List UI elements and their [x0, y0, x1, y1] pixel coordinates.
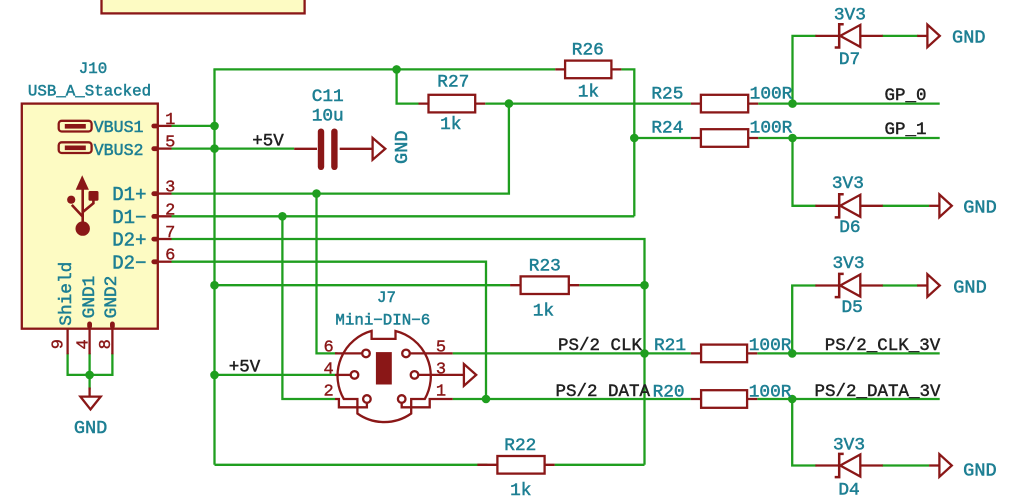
zener diode D5: [815, 274, 882, 297]
J10 pin 4 (GND1): [88, 323, 90, 355]
svg-text:D2+: D2+: [112, 230, 146, 252]
svg-text:USB_A_Stacked: USB_A_Stacked: [28, 82, 151, 100]
junction R23 rail/bus: [210, 281, 219, 290]
svg-text:1k: 1k: [578, 83, 599, 103]
svg-text:Shield: Shield: [57, 262, 77, 326]
svg-text:100R: 100R: [749, 336, 792, 356]
wire R24 left junction: [634, 137, 691, 139]
svg-text:9: 9: [50, 339, 69, 349]
svg-text:R22: R22: [504, 436, 536, 456]
svg-text:J10: J10: [79, 60, 107, 78]
wire CLK line to PS/2_CLK_3V: [757, 352, 939, 354]
junction CLK line/riser: [640, 349, 649, 358]
svg-text:3V3: 3V3: [834, 6, 866, 26]
wire R26/R27 split vertical: [397, 69, 419, 103]
svg-text:C11: C11: [312, 87, 344, 107]
J10 pin 9 (Shield): [66, 329, 68, 355]
svg-text:GND: GND: [74, 418, 107, 439]
junction J10 ground pins: [85, 371, 94, 380]
J7 pin 5: [411, 352, 453, 354]
svg-text:GND: GND: [963, 197, 996, 218]
junction DATA/D4 drop: [788, 395, 797, 404]
J10 pin 8 (GND2): [111, 323, 113, 355]
svg-text:1: 1: [165, 111, 175, 130]
ground symbol below J10: [88, 388, 90, 397]
J10 pin 2 (D1-): [158, 215, 172, 217]
svg-text:3V3: 3V3: [832, 174, 864, 194]
resistor R21: [691, 352, 757, 354]
svg-text:4: 4: [75, 339, 94, 349]
junction GP_0/D7 riser: [788, 99, 797, 108]
J10 pin 5 (VBUS2): [158, 147, 172, 149]
wire VBUS2 pin to C11: [172, 147, 295, 149]
svg-text:8: 8: [97, 339, 116, 349]
junction VBUS1/bus: [210, 122, 219, 131]
svg-text:J7: J7: [377, 289, 396, 307]
svg-text:R20: R20: [653, 383, 685, 403]
svg-text:2: 2: [165, 201, 175, 220]
J10 pin 2 nub: [151, 214, 158, 219]
junction R26/R24: [630, 134, 639, 143]
wire R22 right to CLK riser: [555, 464, 645, 466]
J10 pin 6 nub: [151, 259, 158, 264]
wire D4 to GND label: [882, 464, 929, 466]
wire R23 rail from bus: [215, 284, 511, 286]
J7 pin 2 channel: [335, 399, 367, 407]
svg-text:R26: R26: [572, 41, 604, 61]
J10 pin 3 nub: [151, 191, 158, 196]
wire D6 to GND label: [882, 205, 929, 207]
J10 pin 6 (D2-): [158, 261, 172, 263]
junction CLK/D5 riser: [788, 349, 797, 358]
svg-text:R23: R23: [529, 257, 561, 277]
svg-text:1k: 1k: [510, 481, 531, 501]
zener diode D4: [815, 454, 882, 477]
svg-text:GP_1: GP_1: [884, 120, 926, 140]
junction D1+/J7 pin6 drop: [312, 189, 321, 198]
wire R24 right / GP_1: [758, 137, 940, 139]
svg-text:4: 4: [323, 361, 333, 380]
capacitor C11: [294, 148, 317, 150]
svg-text:PS/2_CLK_3V: PS/2_CLK_3V: [825, 336, 941, 356]
svg-text:3V3: 3V3: [833, 436, 865, 456]
wire D5 to GND label: [882, 284, 918, 286]
ground symbol at D6: [929, 205, 939, 207]
wire J10 shield pin 9 down: [68, 353, 90, 375]
svg-text:6: 6: [165, 247, 175, 266]
ground symbol at D4: [929, 464, 939, 466]
junction GP_1/D6 drop: [788, 134, 797, 143]
wire D1- pin to riser at R24: [172, 215, 635, 217]
junction VBUS2/bus: [210, 144, 219, 153]
J10 pin 1 (VBUS1): [158, 125, 172, 127]
J10 VBUS2 receptacle icon: [59, 142, 92, 153]
J10 pin 4 nub: [87, 322, 92, 329]
svg-text:+5V: +5V: [229, 358, 261, 378]
resistor R27: [419, 102, 486, 104]
wire bottom R22 row: [215, 464, 488, 466]
wire D1+ junction down to J7 pin 6: [317, 194, 338, 354]
junction DATA line/D2- drop: [482, 395, 491, 404]
wire J7 pin 5 to CLK line: [453, 352, 691, 354]
svg-text:R27: R27: [437, 73, 469, 93]
J10 pin 1 nub: [151, 124, 158, 129]
ground symbol at C11 (pointing right): [373, 138, 386, 160]
svg-text:6: 6: [323, 339, 333, 358]
J7 pin 3: [419, 374, 464, 376]
wire DATA junction down to D4: [792, 399, 816, 466]
svg-text:GND1: GND1: [80, 276, 100, 319]
svg-text:PS/2 DATA: PS/2 DATA: [556, 382, 651, 402]
svg-text:1k: 1k: [533, 302, 554, 322]
wire VBUS1 pin to bus: [172, 125, 215, 127]
J7 pin 4: [335, 374, 350, 376]
junction rail/R27 riser: [392, 65, 401, 74]
svg-text:Mini−DIN−6: Mini−DIN−6: [335, 312, 430, 330]
resistor R20: [691, 398, 757, 400]
wire D7 to GND label: [882, 35, 918, 37]
wire D2- pin down to DATA: [172, 262, 487, 399]
wire GP_0 junction up to D7: [793, 36, 817, 104]
wire J10 pin 4 down: [88, 353, 90, 389]
junction D1-/J7 pin2 drop: [278, 212, 287, 221]
resistor R24: [691, 137, 758, 139]
svg-text:R25: R25: [651, 84, 683, 104]
junction +5V row/bus: [210, 371, 219, 380]
wire D1+ pin to riser B: [172, 104, 509, 194]
wire CLK junction up to D5: [792, 286, 816, 354]
J10 VBUS1 receptacle icon: [59, 121, 92, 132]
wire R26 right to R24 junction: [621, 69, 634, 216]
svg-text:2: 2: [323, 383, 333, 402]
svg-text:GND: GND: [963, 460, 996, 481]
J10 pin 3 (D1+): [158, 192, 172, 194]
wire D2+ pin to CLK riser: [172, 239, 645, 465]
ground symbol at D5: [917, 284, 927, 286]
resistor R26: [555, 68, 621, 70]
component partial box top: [102, 0, 305, 13]
wire DATA line to PS/2_DATA_3V: [757, 398, 939, 400]
svg-text:3: 3: [165, 179, 175, 198]
svg-text:100R: 100R: [749, 383, 792, 403]
svg-text:PS/2_DATA_3V: PS/2_DATA_3V: [814, 382, 941, 402]
svg-text:GND: GND: [952, 28, 985, 49]
resistor R22: [477, 464, 554, 466]
wire J7 pin 1 to DATA line: [453, 398, 691, 400]
wire J10 pin 8 down: [90, 353, 113, 375]
J10 pin 7 (D2+): [158, 238, 172, 240]
ground symbol at D7: [917, 35, 927, 37]
J7 center key rectangle: [376, 352, 392, 384]
svg-text:100R: 100R: [750, 84, 793, 104]
svg-text:D4: D4: [838, 481, 859, 501]
wire +5V to J7 pin 4: [215, 374, 336, 376]
svg-text:D5: D5: [842, 298, 863, 318]
connector J10 body: [22, 104, 158, 329]
svg-text:GP_0: GP_0: [884, 86, 926, 106]
svg-text:GND: GND: [953, 277, 986, 298]
svg-text:D6: D6: [839, 218, 860, 238]
J10 pin 7 nub: [151, 237, 158, 242]
J10 pin 5 nub: [151, 146, 158, 151]
svg-text:R24: R24: [651, 119, 683, 139]
J7 pin 1 channel: [402, 399, 453, 407]
svg-text:VBUS2: VBUS2: [94, 141, 144, 160]
wire D1- junction down to J7 pin 2: [282, 216, 335, 399]
svg-text:PS/2 CLK: PS/2 CLK: [558, 336, 643, 356]
svg-text:GND: GND: [392, 130, 413, 163]
wire R27 right to R25 left: [485, 102, 691, 104]
svg-text:D1−: D1−: [112, 207, 146, 229]
wire R25 right / GP_0: [758, 102, 940, 104]
svg-text:+5V: +5V: [252, 131, 284, 151]
svg-text:1: 1: [436, 383, 446, 402]
svg-text:3: 3: [436, 361, 446, 380]
wire top rail to R26/R27: [213, 68, 555, 70]
svg-text:5: 5: [436, 339, 446, 358]
connector J7 shell: [338, 331, 431, 422]
svg-text:GND2: GND2: [102, 276, 122, 319]
wire +5V main vertical bus: [213, 69, 215, 464]
svg-text:D7: D7: [839, 50, 860, 70]
svg-text:D2−: D2−: [112, 252, 146, 274]
junction R23 right/CLK riser: [640, 281, 649, 290]
svg-text:3V3: 3V3: [832, 254, 864, 274]
J10 USB trident icon: [67, 175, 98, 236]
svg-text:R21: R21: [654, 336, 686, 356]
resistor R25: [691, 102, 758, 104]
zener diode D7: [815, 24, 882, 47]
wire GP_1 junction down to D6: [793, 138, 817, 206]
svg-text:D1+: D1+: [112, 184, 146, 206]
wire R23 right to CLK riser: [579, 284, 644, 286]
J7 pin 6: [335, 352, 362, 354]
svg-text:10u: 10u: [312, 107, 344, 127]
J10 pin 8 nub: [110, 322, 115, 329]
svg-text:5: 5: [165, 134, 175, 153]
resistor R23: [510, 284, 579, 286]
svg-text:100R: 100R: [750, 119, 793, 139]
svg-text:7: 7: [165, 224, 175, 243]
ground symbol at J7 pin 3: [464, 364, 476, 386]
zener diode D6: [815, 194, 882, 217]
junction R27/R25/D1+ riser: [505, 99, 514, 108]
svg-text:VBUS1: VBUS1: [94, 118, 144, 137]
svg-text:1k: 1k: [440, 115, 461, 135]
